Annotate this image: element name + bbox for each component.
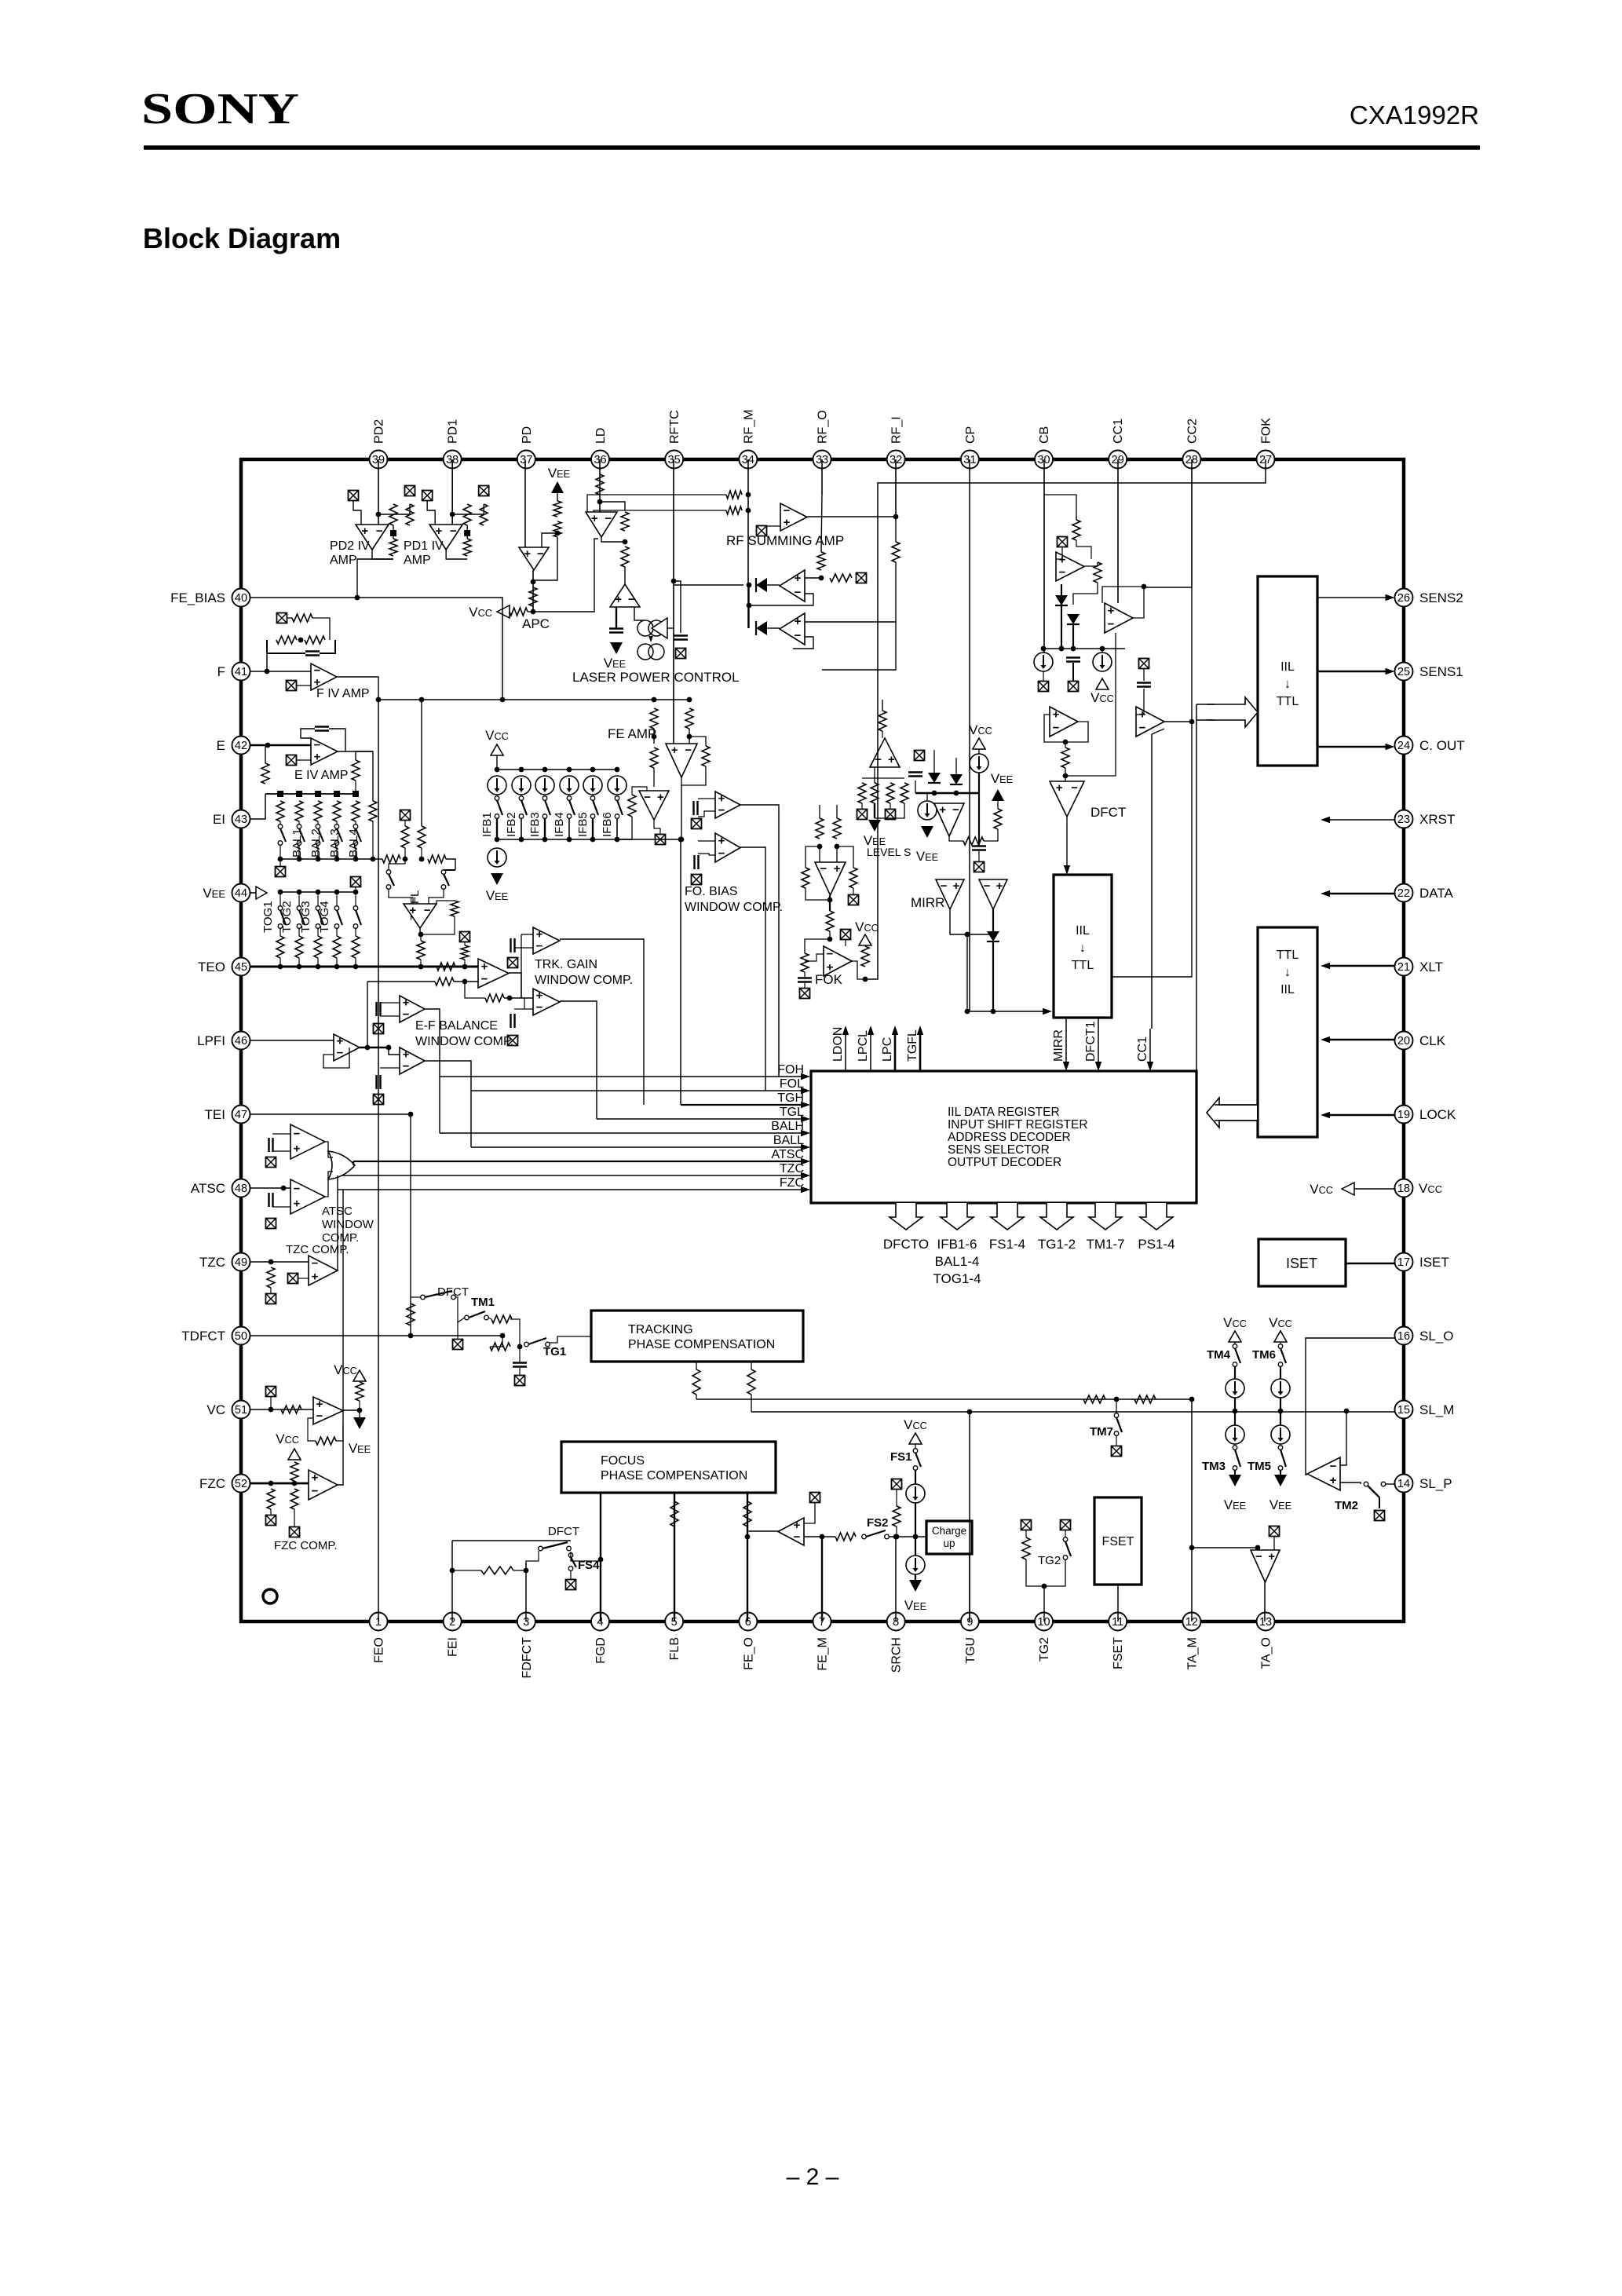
net CC1 label [1136,1036,1149,1062]
pin 6 FE_O [739,1613,757,1670]
resistor tracking R1 [692,1369,700,1395]
pin 21 XLT [1395,958,1443,976]
svg-text:XRST: XRST [1419,812,1455,827]
label E IV AMP [294,769,348,782]
op-amp MIRR out amp2 [979,879,1007,909]
test pad FS4 pad [566,1580,576,1590]
block DFCT IIL-to-TTL U4 [1054,875,1112,1018]
wire tgfl pad2 w2 [464,960,466,967]
capacitor CC2 cap [1137,683,1151,687]
switch IFB switch 3 [542,796,550,819]
svg-text:BALL: BALL [773,1134,804,1147]
resistor TGFL R5 [417,941,425,960]
svg-text:TM1: TM1 [471,1296,495,1309]
test pad E pad [287,755,297,766]
node fok n3 [827,898,833,903]
wire tgfl sw1w [389,859,405,870]
svg-text:−: − [875,753,882,766]
wire vc fbw2 [336,1424,343,1441]
op-amp FOK amp1 [815,862,846,895]
diode diode M3 [987,931,999,941]
wire fs4 top [571,1552,601,1561]
node IFB bus node 4 [567,767,572,773]
wire SENS1 [1317,668,1395,675]
page number [787,2164,839,2190]
svg-text:FS1-4: FS1-4 [989,1237,1025,1252]
op-amp PD2 IV AMP [356,525,389,550]
wire BAL top bus [265,793,356,795]
label PD2 IV AMP [330,539,370,553]
wire fe2 w [632,787,647,795]
wire CLK [1321,1036,1394,1043]
wire sl+ w [1340,1483,1361,1484]
wire feo amp out [804,1536,835,1537]
test pad FZC pad2 [290,1527,300,1537]
wire lev w2 [861,803,863,809]
wire bus1798 [751,1411,1394,1413]
capacitor EF cap1 [377,1002,381,1016]
wire tg1 capw2 [519,1368,521,1375]
wire trk in1 [521,934,533,935]
wire df chain2 [1072,624,1074,649]
svg-text:DFCTO: DFCTO [883,1237,929,1252]
wire IFB w3 [544,818,546,839]
op-amp RF SUMMING AMP [780,503,807,531]
node TM6 node [1278,1409,1284,1414]
wire pin35 drop [673,459,674,744]
label label IFB1 [480,812,494,837]
resistor DFCT R mid [1061,748,1069,768]
capacitor LPC cap2 [674,636,688,640]
resistor amp1 R right [830,574,852,582]
node feo n1 [745,1534,751,1540]
switch IFB switch 2 [519,796,527,819]
pin 37 PD [517,426,535,469]
wire TM4 w1 [1234,1342,1236,1344]
wire dfct ptw [1056,547,1062,559]
resistor TGFL R in [382,855,400,863]
wire d1 wire [767,584,780,586]
node fok n2 [835,844,840,850]
test pad FEO pad [810,1493,820,1503]
label ATSC label1 [322,1205,353,1218]
wire pin14 wire [1386,1483,1394,1485]
resistor DFCT R right [1094,562,1101,583]
wire TOG col2 w3 [298,958,300,967]
wire fok n4w [805,939,830,953]
svg-text:ADDRESS DECODER: ADDRESS DECODER [948,1131,1071,1144]
power VEE APC VEE top [548,466,570,493]
wire BAL col1 w2 [279,845,281,859]
svg-text:VCC: VCC [1090,690,1114,705]
switch TM1 [465,1311,489,1320]
node fe n5 [679,837,685,843]
label label TOG4 [318,901,331,933]
label TM7 label [1090,1425,1113,1439]
op-amp PD1 IV AMP [429,525,462,550]
wire pin27 path [865,459,1266,979]
switch TOG switch 3 [316,906,323,929]
capacitor DF cap [1066,658,1080,662]
wire TM4 w2 [1234,1366,1236,1379]
wire feo padw [804,1502,815,1523]
svg-text:WINDOW COMP.: WINDOW COMP. [685,901,783,914]
net LPC label [881,1037,894,1062]
svg-text:VCC: VCC [1269,1315,1292,1330]
current source IFB source 6 [608,776,627,795]
svg-text:IIL: IIL [1076,924,1090,938]
wire TOG col3 w [317,892,319,906]
output label DFCTO [883,1237,929,1252]
svg-text:BAL1-4: BAL1-4 [935,1254,980,1269]
wire PD2 IV AMP out [372,550,393,559]
current source IFB source 4 [560,776,579,795]
wire TOG col5 w [355,892,356,906]
wire ef out2 [425,1061,471,1147]
wire IFB w5 [592,818,594,839]
svg-text:−: − [795,586,802,599]
wire fo out2 [740,847,765,1091]
wire pin47 wire [250,1113,411,1115]
wire APC vee-r [557,493,558,501]
pin 14 SL_P [1395,1475,1452,1493]
svg-text:26: 26 [1397,592,1410,605]
node junction pin39 [376,512,382,517]
pin 10 TG2 [1035,1613,1053,1662]
IC boundary box [241,459,1404,1621]
node fem n1 [820,1534,825,1540]
wire TM6 w2 [1280,1366,1281,1379]
node tzc n1 [269,1260,274,1265]
svg-text:TM1-7: TM1-7 [1086,1237,1124,1252]
wire BAL col3 w2 [317,845,319,859]
test pad FOK pad3 [841,930,851,940]
svg-text:TZC COMP.: TZC COMP. [286,1243,349,1256]
power Vcc TM4 Vcc [1223,1315,1247,1342]
node IFB bus node 1 [495,767,500,773]
svg-text:−: − [294,1127,301,1140]
wire mirr rh w1 [949,836,963,841]
wire PD1 IV AMP R mid [466,525,468,539]
resistor FDFCT R [481,1567,513,1574]
wire APC vcc wire [528,611,533,612]
wire lev w1 [874,767,875,783]
junction square BAL4 [353,791,359,797]
net FZC label [780,1176,804,1190]
op-amp TRK comp amp2 [533,989,560,1015]
svg-text:AMP: AMP [404,554,431,567]
svg-text:−: − [984,879,991,893]
wire fok rr w1 [837,846,853,868]
wire bus1798 v [751,1395,752,1412]
resistor FZC R2 [290,1489,298,1509]
wire IFB top bus [497,769,617,770]
wire BAL col1 w [279,821,281,824]
wire trk c1w [514,947,533,949]
test pad fe pad [656,835,666,845]
switch TGFL sw1 [386,870,394,890]
op-amp TA_O amp [1251,1550,1280,1582]
svg-text:TGU: TGU [964,1637,977,1664]
svg-text:47: 47 [235,1109,247,1121]
power Vcc TM6 Vcc [1269,1315,1292,1342]
wire srch drop pin8 [895,1537,897,1621]
svg-text:−: − [795,629,802,642]
resistor FE R2 [685,708,693,729]
test pad BAL pad [276,867,286,877]
wire reg to IIL-TTL b [1196,719,1215,721]
node fdfct n2 [524,1568,529,1574]
pin 43 EI [213,810,250,828]
label TM1 label [471,1296,495,1309]
wire fok r2w [836,805,838,818]
resistor F fb R1 [292,614,312,622]
svg-text:23: 23 [1397,813,1410,826]
svg-text:LEVEL S: LEVEL S [867,846,911,858]
wire IFB w6 [616,818,618,839]
resistor DFCT R top [1072,520,1080,540]
wire LPC cap wire [674,581,681,633]
pin 39 PD2 [370,419,388,469]
node BAL bus node 381 [297,857,302,862]
svg-text:VCC: VCC [1223,1315,1247,1330]
op-amp TGFL amp [404,904,437,928]
wire fei h [452,1540,571,1541]
wire fgd drop [600,1493,601,1621]
wire ifb vcc w [496,755,498,770]
svg-text:SENS2: SENS2 [1419,590,1463,605]
svg-text:15: 15 [1397,1404,1410,1417]
wire ATSC out [353,1161,354,1165]
node IFB bot node 725 [567,837,572,843]
svg-text:BAL2: BAL2 [309,828,323,857]
resistor RF R1 [726,491,742,499]
svg-text:+: + [784,516,791,529]
wire lev w3 [890,803,891,809]
wire F in wire [267,671,311,672]
svg-text:VEE: VEE [1224,1497,1246,1512]
power VEE LPC VEE [604,642,626,671]
wire df src2w [1101,649,1103,653]
svg-text:FGD: FGD [594,1637,608,1664]
block TTL-to-IIL U2 [1258,927,1317,1137]
switch TM7 [1114,1413,1122,1436]
svg-text:FSET: FSET [1102,1535,1134,1548]
pin 49 TZC [199,1253,250,1271]
svg-text:RF_M: RF_M [742,409,755,444]
wire TOG col1 w2 [279,928,281,936]
wire RF pad wire [766,525,780,527]
pin 1 FEO [370,1613,388,1663]
output label IFB1-6 [937,1237,977,1252]
block Charge up [926,1521,972,1554]
wire APC r chain [532,537,557,580]
svg-text:VCC: VCC [904,1417,927,1432]
svg-text:LASER POWER CONTROL: LASER POWER CONTROL [572,670,740,685]
label F IV AMP [316,687,370,700]
test pad TGFL pad2 [460,932,470,942]
wire fok a2 inw [805,954,824,961]
capacitor MIRR cap2 [972,846,986,850]
svg-text:TG2: TG2 [1038,1637,1051,1662]
resistor TGFL R6 [461,945,469,960]
wire tgfl sw2w [444,869,455,871]
node trk n0 [462,979,468,985]
label TG1 label [543,1345,566,1358]
wire amp1 + out [805,577,821,579]
net MIRR arrow [1063,1018,1069,1071]
svg-text:+: + [436,525,443,538]
node IFB bot node 633 [495,837,500,843]
power Vcc MIRR Vcc [969,722,992,749]
wire atsc c2w [272,1206,290,1208]
svg-text:−: − [605,512,612,525]
wire F out [337,677,378,700]
svg-text:TTL: TTL [1277,949,1299,962]
node pin35 node [671,579,677,584]
svg-text:TDFCT: TDFCT [181,1329,225,1344]
pin 47 TEI [205,1106,250,1124]
wire reg to IIL-TTL a [1196,704,1215,705]
test pad FOK pad1 [849,895,859,905]
wire cc1 long drop [1151,734,1153,1029]
svg-text:VCC: VCC [1419,1181,1442,1196]
svg-text:VEE: VEE [349,1441,371,1456]
wire ifb to fe [617,839,681,840]
svg-text:+: + [294,1197,301,1211]
resistor TRK R in- [435,978,454,985]
op-amp CC2 amp [1136,707,1164,737]
test pad CB pad [1039,682,1049,692]
resistor F fb R2 [276,636,297,644]
wire trk out2 [560,1001,597,1119]
svg-text:−: − [718,847,725,861]
net BALL label [773,1134,804,1147]
svg-text:FEO: FEO [373,1637,386,1663]
svg-text:ISET: ISET [1286,1256,1317,1271]
wire dfct rm w [1065,742,1066,748]
svg-text:−: − [337,1046,344,1059]
wire lpfi fb [323,1047,349,1068]
wire fo out1 [740,805,779,1077]
capacitor FOK cap [798,978,812,982]
wire tm7 padw [1116,1435,1117,1446]
current source MIRR source2 [970,754,988,773]
resistor TRK R in+ [437,963,455,971]
wire IIL-TTL feed v1 [1196,704,1197,1071]
wire mirr c2w [978,793,980,845]
svg-text:+: + [314,750,321,763]
wire fok out2 [852,961,865,979]
wire amp2 + out [805,621,896,623]
wire fs1 w1 [915,1444,916,1449]
wire tm1 w4 [510,1319,520,1347]
switch TM5 [1278,1446,1286,1471]
svg-text:−: − [952,803,959,817]
wire tgu drop pin9 [969,1411,970,1621]
wire tao padw [1273,1536,1275,1550]
wire dfct top wire [1044,495,1076,520]
op-amp FOK amp2 [824,946,852,976]
switch BAL switch 3 [316,824,323,846]
wire LPFI out [360,1047,389,1049]
node TEO bus node 405 [316,964,321,970]
resistor LEV R 1152 [901,783,908,803]
net TZC bus wire [338,1172,810,1179]
diode diode DF2 [1067,614,1080,624]
label Vcc small [276,1431,299,1446]
label FO. BIAS [685,885,738,898]
svg-text:48: 48 [235,1183,247,1195]
resistor PD2 IV AMP out R3 [389,539,397,556]
wire vc veew [359,1410,360,1417]
node dfct n2 [1063,773,1069,779]
pin 31 CP [961,426,979,469]
node tgfl n5 [462,964,468,970]
wire TEO bus [250,966,465,968]
wire df bus [1043,648,1125,649]
svg-text:52: 52 [235,1478,247,1490]
svg-text:−: − [316,1409,323,1423]
wire fo c1w2 [698,811,715,817]
wire amp1 - loop [749,594,813,605]
resistor PD2 IV AMP load R2 [406,504,414,525]
current mirror circles [637,618,667,660]
pin 3 FDFCT [517,1613,535,1679]
pin 29 CC1 [1109,419,1127,469]
resistor BAL ladder R1 [276,801,284,821]
resistor LD R2 [621,547,629,567]
wire E pad w [296,759,311,761]
node sl n1 [1344,1409,1350,1414]
label PD1 AMP [404,554,431,567]
op-amp FE amp2 [639,791,669,820]
node tg2 n1 [1042,1584,1047,1589]
wire tm2 padw [1379,1497,1380,1508]
diode diode D1 [756,578,767,592]
header rule [144,145,1480,150]
resistor RF R2 [726,506,742,514]
resistor LEV R 1114 [871,783,879,803]
wire LOCK [1321,1112,1394,1118]
power VEE MIRR2 [991,771,1013,801]
op-amp MIRR amp A [1050,707,1078,737]
resistor TOG ladder R1 [276,936,284,958]
wire tgfl out4 [420,960,422,967]
test pad F pad1 [277,613,287,623]
test pad TG2 pad1 [1021,1520,1032,1530]
wire TM6 w1 [1280,1342,1281,1344]
wire E fb w1 [301,729,315,738]
wire mirr rh w2 [984,829,998,841]
pin 15 SL_M [1395,1401,1455,1419]
test pad ATSC pad2 [266,1219,276,1229]
svg-text:IIL: IIL [1280,660,1295,674]
node TOG bus node 429 [334,890,340,895]
label LASER POWER CONTROL [572,670,740,685]
svg-text:49: 49 [235,1256,247,1269]
wire tg2 drop [1043,1586,1045,1621]
resistor TG2 R [1022,1537,1030,1559]
pin 17 ISET [1395,1253,1449,1271]
svg-text:VC: VC [206,1402,225,1417]
node diode n1 [747,583,752,588]
test pad ATSC pad1 [266,1157,276,1168]
node junction pin38 [450,512,455,517]
svg-text:42: 42 [235,740,247,752]
svg-text:+: + [834,862,841,876]
junction square PD2 IV AMP [390,530,396,536]
